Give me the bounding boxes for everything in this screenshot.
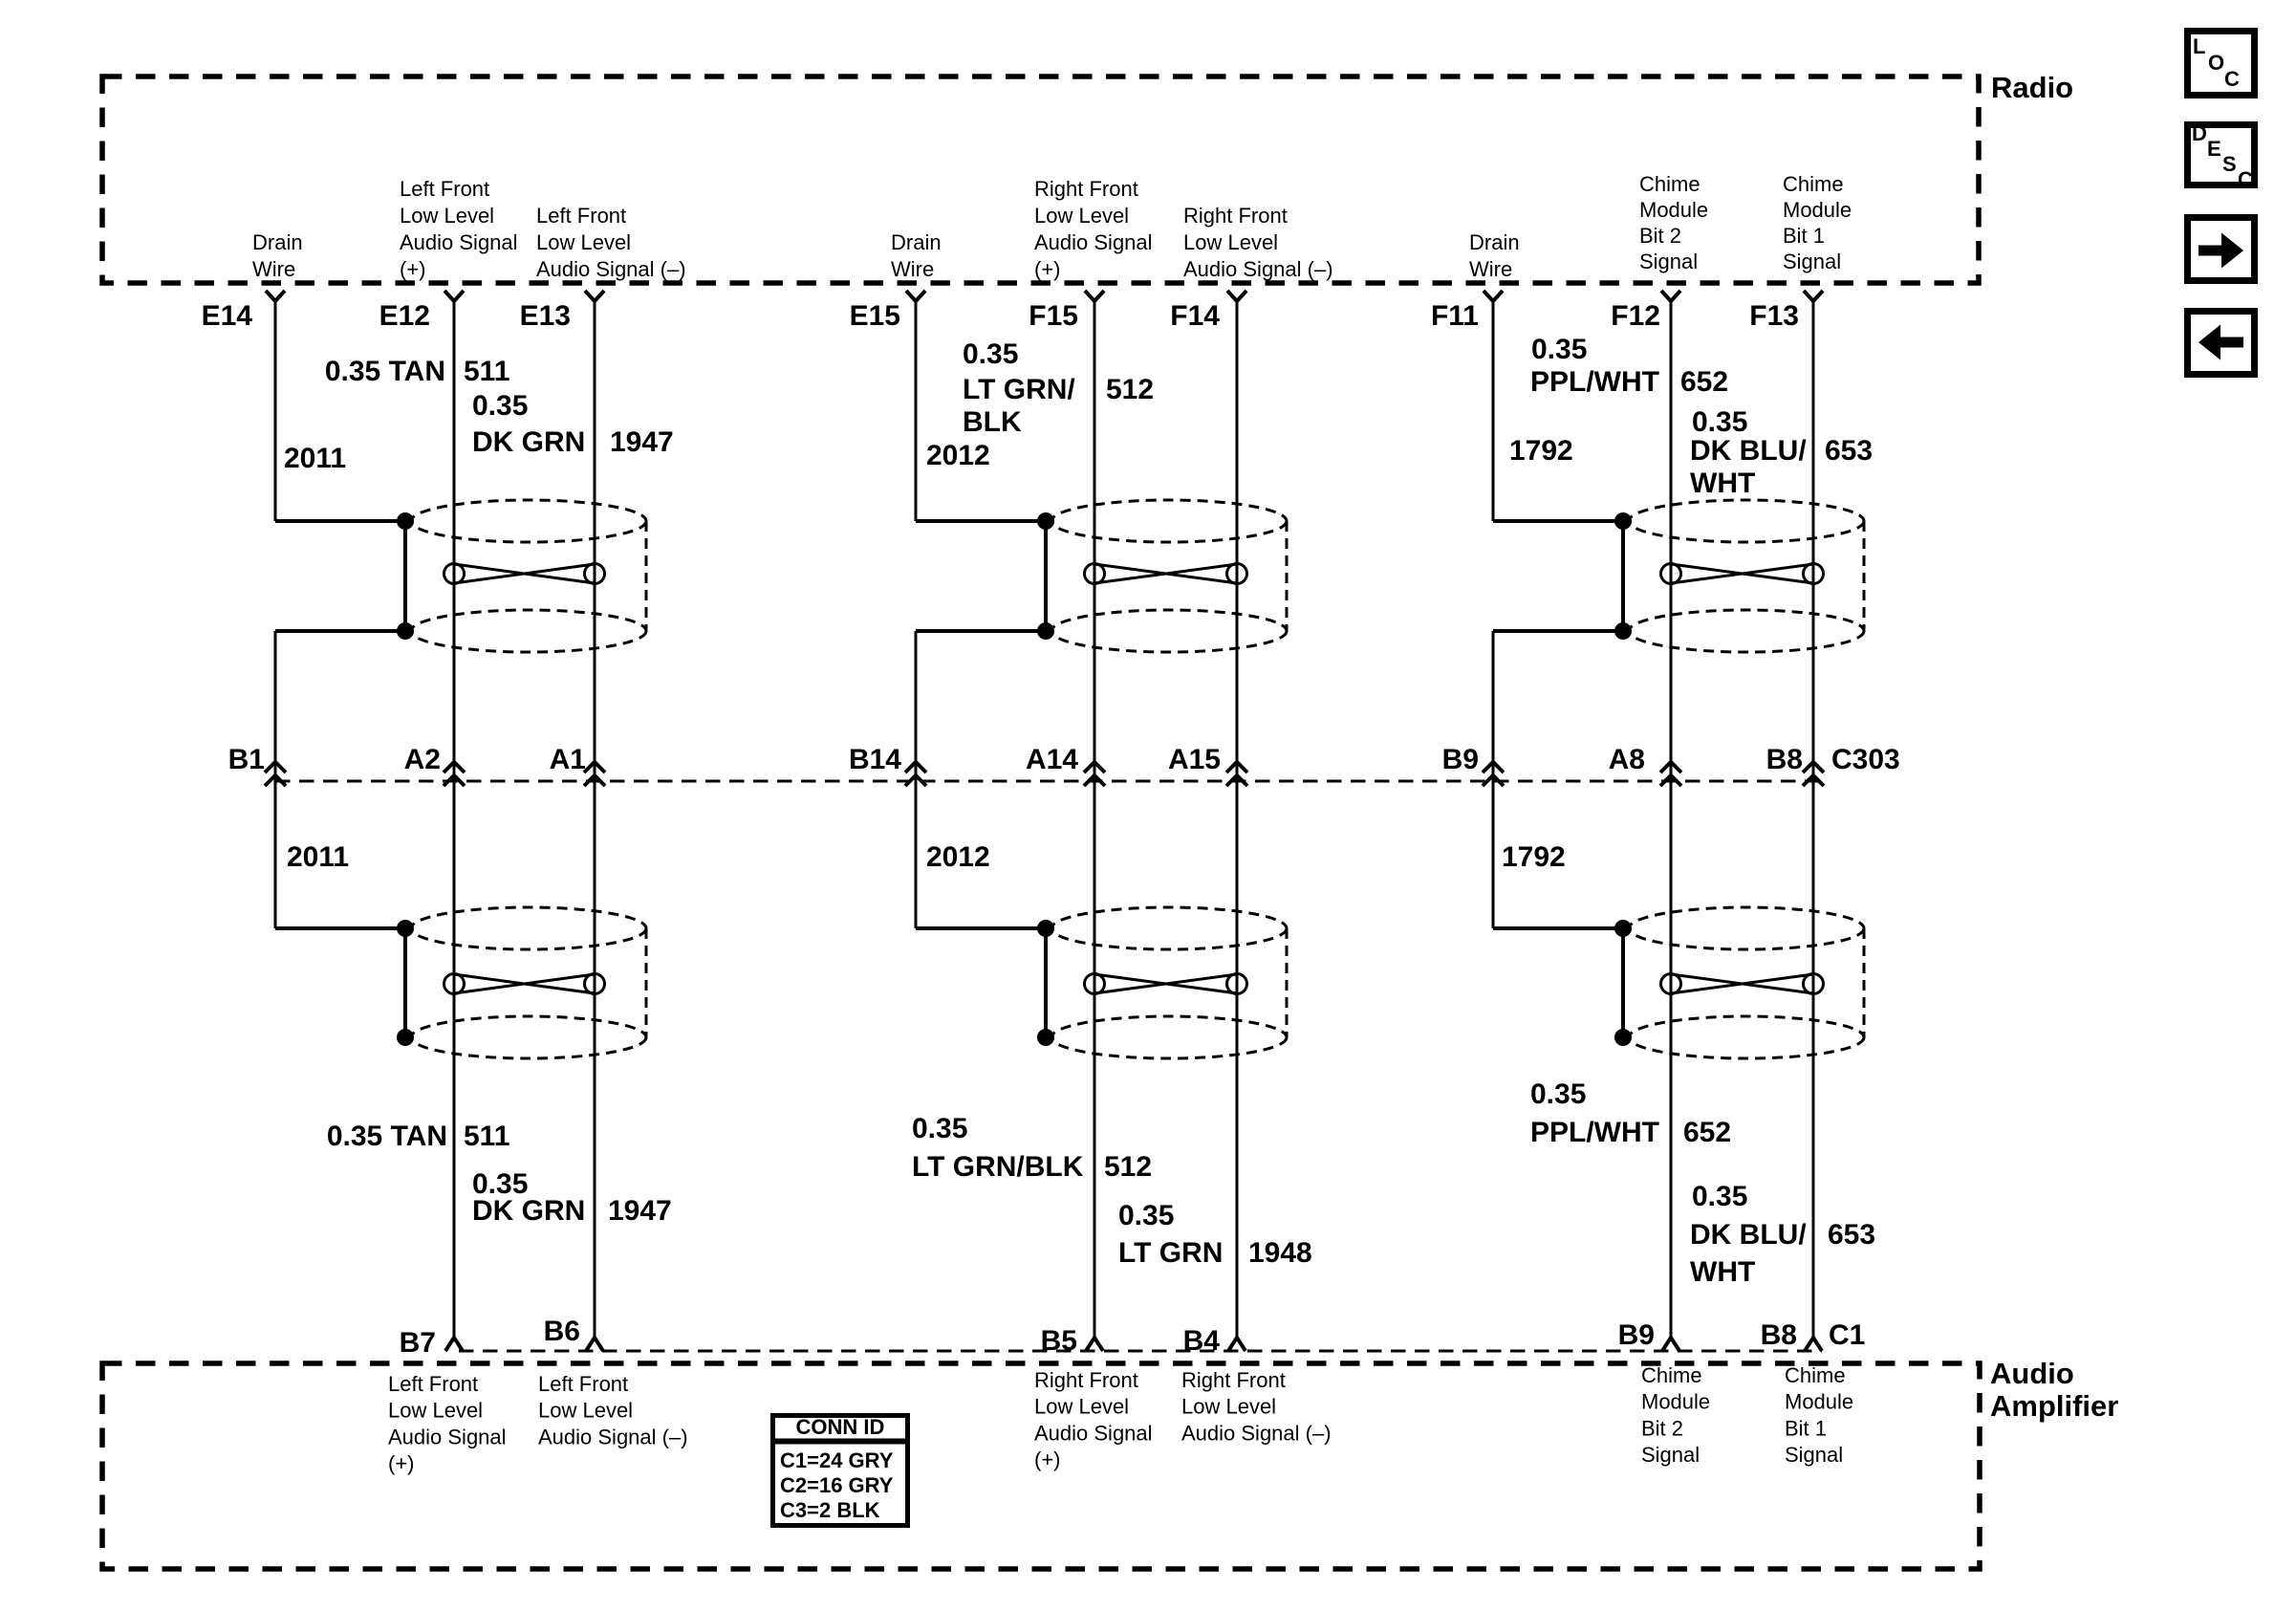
svg-text:0.35: 0.35 bbox=[1692, 406, 1747, 438]
svg-text:LT GRN/: LT GRN/ bbox=[963, 374, 1075, 405]
svg-text:(+): (+) bbox=[1034, 1448, 1061, 1471]
svg-text:(+): (+) bbox=[1034, 257, 1061, 281]
svg-text:511: 511 bbox=[464, 1121, 509, 1152]
svg-text:A14: A14 bbox=[1026, 744, 1078, 775]
svg-text:Bit 1: Bit 1 bbox=[1783, 224, 1825, 248]
svg-text:CONN ID: CONN ID bbox=[796, 1415, 885, 1439]
svg-text:Low Level: Low Level bbox=[538, 1399, 633, 1423]
svg-text:2012: 2012 bbox=[926, 841, 990, 873]
svg-text:653: 653 bbox=[1825, 435, 1873, 467]
svg-text:E13: E13 bbox=[520, 300, 571, 332]
svg-text:B8: B8 bbox=[1761, 1319, 1797, 1351]
svg-text:Wire: Wire bbox=[1469, 257, 1512, 281]
svg-text:1792: 1792 bbox=[1509, 435, 1573, 467]
svg-text:F12: F12 bbox=[1611, 300, 1660, 332]
svg-text:B6: B6 bbox=[544, 1316, 580, 1347]
svg-text:512: 512 bbox=[1104, 1151, 1152, 1183]
svg-text:Left Front: Left Front bbox=[400, 177, 489, 201]
svg-text:C: C bbox=[2224, 67, 2240, 91]
svg-text:652: 652 bbox=[1683, 1117, 1731, 1148]
svg-text:Audio: Audio bbox=[1990, 1357, 2074, 1390]
svg-text:Audio Signal: Audio Signal bbox=[1034, 230, 1153, 254]
svg-text:Signal: Signal bbox=[1783, 250, 1841, 273]
svg-text:Audio Signal (–): Audio Signal (–) bbox=[1183, 257, 1333, 281]
svg-text:Signal: Signal bbox=[1641, 1443, 1700, 1467]
svg-text:C303: C303 bbox=[1831, 744, 1900, 775]
svg-text:0.35: 0.35 bbox=[1530, 1078, 1586, 1110]
svg-text:B8: B8 bbox=[1766, 744, 1803, 775]
svg-text:0.35: 0.35 bbox=[1531, 334, 1587, 365]
svg-text:S: S bbox=[2222, 152, 2237, 176]
svg-text:E12: E12 bbox=[379, 300, 430, 332]
svg-text:A15: A15 bbox=[1168, 744, 1221, 775]
svg-text:Audio Signal (–): Audio Signal (–) bbox=[536, 257, 686, 281]
svg-text:Left Front: Left Front bbox=[388, 1372, 478, 1396]
svg-text:PPL/WHT: PPL/WHT bbox=[1530, 366, 1659, 398]
svg-text:B14: B14 bbox=[849, 744, 901, 775]
svg-text:B4: B4 bbox=[1183, 1325, 1221, 1357]
svg-text:Right Front: Right Front bbox=[1034, 177, 1138, 201]
svg-text:511: 511 bbox=[464, 356, 509, 387]
svg-text:B1: B1 bbox=[228, 744, 265, 775]
svg-text:Drain: Drain bbox=[891, 230, 942, 254]
svg-text:Low Level: Low Level bbox=[1183, 230, 1278, 254]
svg-text:0.35: 0.35 bbox=[472, 390, 528, 422]
svg-text:B5: B5 bbox=[1041, 1325, 1077, 1357]
svg-text:Bit 1: Bit 1 bbox=[1785, 1416, 1827, 1440]
svg-text:C1: C1 bbox=[1829, 1319, 1865, 1351]
svg-text:Low Level: Low Level bbox=[400, 204, 494, 228]
svg-text:Low Level: Low Level bbox=[1034, 204, 1129, 228]
svg-text:E15: E15 bbox=[850, 300, 900, 332]
svg-text:DK GRN: DK GRN bbox=[472, 426, 585, 458]
svg-text:Module: Module bbox=[1639, 198, 1708, 222]
svg-text:DK GRN: DK GRN bbox=[472, 1195, 585, 1227]
svg-text:A8: A8 bbox=[1609, 744, 1645, 775]
svg-text:A2: A2 bbox=[404, 744, 441, 775]
svg-text:Wire: Wire bbox=[891, 257, 934, 281]
svg-text:LT GRN: LT GRN bbox=[1118, 1237, 1223, 1269]
svg-text:C: C bbox=[2238, 167, 2253, 191]
svg-text:512: 512 bbox=[1106, 374, 1154, 405]
svg-text:B9: B9 bbox=[1442, 744, 1479, 775]
svg-text:Left Front: Left Front bbox=[536, 204, 626, 228]
svg-text:Chime: Chime bbox=[1785, 1363, 1846, 1387]
svg-text:Low Level: Low Level bbox=[388, 1399, 483, 1423]
svg-text:Chime: Chime bbox=[1783, 172, 1844, 196]
svg-text:Audio Signal: Audio Signal bbox=[1034, 1421, 1153, 1445]
svg-text:0.35 TAN: 0.35 TAN bbox=[325, 356, 445, 387]
svg-text:0.35: 0.35 bbox=[1692, 1181, 1747, 1212]
svg-text:1947: 1947 bbox=[608, 1195, 672, 1227]
svg-text:F15: F15 bbox=[1029, 300, 1078, 332]
svg-text:Bit 2: Bit 2 bbox=[1639, 224, 1681, 248]
svg-text:Signal: Signal bbox=[1785, 1443, 1843, 1467]
svg-text:Signal: Signal bbox=[1639, 250, 1698, 273]
svg-text:0.35 TAN: 0.35 TAN bbox=[327, 1121, 447, 1152]
svg-text:Drain: Drain bbox=[252, 230, 303, 254]
svg-text:Audio Signal (–): Audio Signal (–) bbox=[538, 1425, 688, 1448]
svg-text:Low Level: Low Level bbox=[1181, 1395, 1276, 1419]
svg-text:(+): (+) bbox=[400, 257, 426, 281]
svg-text:1792: 1792 bbox=[1502, 841, 1566, 873]
svg-text:Wire: Wire bbox=[252, 257, 295, 281]
svg-text:F13: F13 bbox=[1749, 300, 1799, 332]
svg-text:D: D bbox=[2192, 121, 2207, 145]
svg-text:E: E bbox=[2207, 137, 2221, 161]
svg-text:2012: 2012 bbox=[926, 440, 990, 471]
svg-text:Bit 2: Bit 2 bbox=[1641, 1416, 1683, 1440]
svg-text:PPL/WHT: PPL/WHT bbox=[1530, 1117, 1659, 1148]
svg-text:Low Level: Low Level bbox=[536, 230, 631, 254]
svg-text:0.35: 0.35 bbox=[912, 1113, 967, 1144]
svg-text:Low Level: Low Level bbox=[1034, 1395, 1129, 1419]
svg-text:1948: 1948 bbox=[1248, 1237, 1312, 1269]
svg-text:WHT: WHT bbox=[1690, 468, 1755, 499]
svg-text:A1: A1 bbox=[550, 744, 586, 775]
svg-text:2011: 2011 bbox=[284, 443, 346, 474]
svg-text:Chime: Chime bbox=[1639, 172, 1700, 196]
svg-text:O: O bbox=[2208, 51, 2224, 75]
svg-text:Module: Module bbox=[1785, 1390, 1853, 1414]
svg-text:0.35: 0.35 bbox=[1118, 1200, 1174, 1231]
svg-text:Module: Module bbox=[1641, 1390, 1710, 1414]
svg-text:Amplifier: Amplifier bbox=[1990, 1389, 2118, 1423]
svg-text:L: L bbox=[2193, 34, 2205, 58]
svg-text:Module: Module bbox=[1783, 198, 1852, 222]
svg-text:BLK: BLK bbox=[963, 406, 1022, 438]
svg-text:2011: 2011 bbox=[287, 841, 349, 873]
svg-text:C2=16 GRY: C2=16 GRY bbox=[780, 1473, 894, 1497]
svg-text:(+): (+) bbox=[388, 1451, 415, 1475]
svg-text:F14: F14 bbox=[1170, 300, 1220, 332]
svg-text:0.35: 0.35 bbox=[963, 338, 1018, 370]
svg-text:1947: 1947 bbox=[610, 426, 674, 458]
svg-text:652: 652 bbox=[1680, 366, 1728, 398]
svg-text:Audio Signal: Audio Signal bbox=[400, 230, 518, 254]
svg-text:C3=2 BLK: C3=2 BLK bbox=[780, 1498, 880, 1522]
svg-text:C1=24 GRY: C1=24 GRY bbox=[780, 1448, 894, 1472]
svg-text:Audio Signal: Audio Signal bbox=[388, 1425, 507, 1448]
svg-text:Right Front: Right Front bbox=[1183, 204, 1288, 228]
svg-text:B7: B7 bbox=[400, 1327, 436, 1359]
svg-text:LT GRN/BLK: LT GRN/BLK bbox=[912, 1151, 1084, 1183]
svg-text:Right Front: Right Front bbox=[1034, 1368, 1138, 1392]
svg-text:DK BLU/: DK BLU/ bbox=[1690, 1219, 1807, 1251]
svg-text:Chime: Chime bbox=[1641, 1363, 1702, 1387]
svg-text:Right Front: Right Front bbox=[1181, 1368, 1286, 1392]
svg-text:Audio Signal (–): Audio Signal (–) bbox=[1181, 1421, 1332, 1445]
svg-text:Radio: Radio bbox=[1991, 71, 2073, 104]
svg-text:Drain: Drain bbox=[1469, 230, 1520, 254]
svg-text:DK BLU/: DK BLU/ bbox=[1690, 435, 1807, 467]
svg-text:653: 653 bbox=[1828, 1219, 1875, 1251]
svg-text:B9: B9 bbox=[1618, 1319, 1655, 1351]
svg-text:Left Front: Left Front bbox=[538, 1372, 628, 1396]
svg-text:WHT: WHT bbox=[1690, 1256, 1755, 1288]
svg-text:F11: F11 bbox=[1431, 300, 1479, 332]
svg-text:E14: E14 bbox=[202, 300, 253, 332]
